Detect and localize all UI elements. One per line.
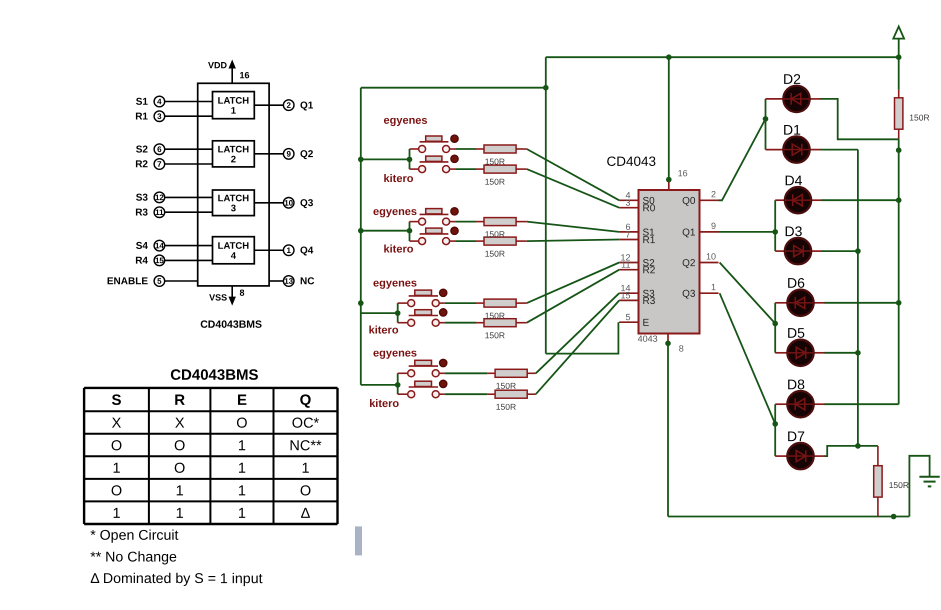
svg-text:4: 4 [157,97,162,106]
svg-text:2: 2 [711,189,716,199]
svg-text:1: 1 [711,282,716,292]
svg-text:X: X [175,416,185,432]
svg-text:D6: D6 [787,275,805,291]
svg-text:D2: D2 [783,71,801,87]
svg-text:D7: D7 [787,428,805,444]
svg-text:O: O [300,483,311,499]
svg-text:O: O [111,483,122,499]
svg-text:kitero: kitero [383,173,413,185]
svg-text:1: 1 [238,483,246,499]
svg-text:Δ Dominated by S = 1 input: Δ Dominated by S = 1 input [90,571,262,587]
svg-text:D4: D4 [784,172,802,188]
svg-text:O: O [174,438,185,454]
svg-text:S3: S3 [136,193,149,204]
svg-text:E: E [642,318,649,329]
svg-text:2: 2 [286,101,291,110]
svg-text:egyenes: egyenes [373,206,417,218]
svg-text:Q: Q [300,392,312,409]
svg-text:1: 1 [301,461,309,477]
svg-text:150R: 150R [909,113,929,123]
svg-text:S: S [111,392,121,409]
svg-text:7: 7 [625,229,630,239]
svg-text:D1: D1 [783,122,801,138]
svg-text:2: 2 [231,154,236,165]
svg-text:1: 1 [286,246,291,255]
svg-text:1: 1 [112,461,120,477]
svg-text:150R: 150R [485,177,505,187]
svg-text:R1: R1 [135,111,148,122]
svg-text:R3: R3 [642,296,655,307]
svg-text:16: 16 [678,168,688,178]
svg-text:Q3: Q3 [300,198,314,209]
svg-text:Q2: Q2 [682,258,696,269]
svg-text:NC**: NC** [289,438,322,454]
svg-text:CD4043: CD4043 [606,154,656,169]
svg-text:15: 15 [620,290,630,300]
svg-text:Q3: Q3 [682,289,696,300]
svg-text:Q1: Q1 [300,100,314,111]
svg-text:kitero: kitero [383,244,413,256]
svg-text:11: 11 [621,260,630,270]
svg-text:8: 8 [239,288,244,298]
svg-text:R2: R2 [642,265,655,276]
svg-text:150R: 150R [485,229,505,239]
svg-text:R4: R4 [135,256,148,267]
svg-text:15: 15 [155,256,164,265]
svg-text:Δ: Δ [301,506,311,522]
svg-text:S1: S1 [136,97,149,108]
svg-text:S2: S2 [136,144,149,155]
svg-text:150R: 150R [496,381,516,391]
svg-text:Q1: Q1 [682,227,696,238]
svg-text:E: E [237,392,247,409]
svg-text:egyenes: egyenes [373,278,417,290]
svg-text:CD4043BMS: CD4043BMS [200,319,262,331]
svg-text:150R: 150R [496,402,516,412]
svg-text:egyenes: egyenes [373,348,417,360]
svg-text:VDD: VDD [208,60,228,70]
svg-text:1: 1 [238,506,246,522]
svg-text:4043: 4043 [638,334,658,344]
svg-text:7: 7 [157,160,162,169]
svg-text:150R: 150R [889,480,909,490]
svg-text:OC*: OC* [292,416,320,432]
svg-text:1: 1 [112,506,120,522]
svg-text:150R: 150R [485,157,505,167]
svg-text:12: 12 [155,193,164,202]
svg-text:R: R [174,392,185,409]
svg-text:VSS: VSS [209,292,227,302]
svg-text:150R: 150R [485,330,505,340]
svg-text:egyenes: egyenes [383,115,427,127]
svg-text:10: 10 [284,199,293,208]
svg-text:kitero: kitero [369,325,399,337]
svg-text:1: 1 [238,438,246,454]
svg-text:R2: R2 [135,159,148,170]
svg-text:D8: D8 [787,376,805,392]
svg-text:NC: NC [300,276,314,287]
svg-text:3: 3 [231,203,236,214]
svg-text:X: X [112,416,122,432]
svg-text:9: 9 [711,221,716,231]
svg-text:3: 3 [625,198,630,208]
svg-text:9: 9 [286,150,291,159]
svg-text:D3: D3 [784,223,802,239]
svg-text:R3: R3 [135,207,148,218]
svg-text:1: 1 [231,106,237,117]
svg-text:D5: D5 [787,325,805,341]
svg-text:14: 14 [155,241,164,250]
svg-text:4: 4 [231,251,237,262]
svg-text:1: 1 [176,483,184,499]
svg-text:R0: R0 [642,203,655,214]
svg-text:S4: S4 [136,241,149,252]
svg-text:Q0: Q0 [682,196,696,207]
svg-text:Q4: Q4 [300,246,314,257]
svg-text:11: 11 [155,208,164,217]
svg-text:Q2: Q2 [300,149,314,160]
svg-text:ENABLE: ENABLE [107,276,148,287]
svg-text:1: 1 [176,506,184,522]
svg-text:13: 13 [284,277,293,286]
svg-text:kitero: kitero [369,398,399,410]
svg-text:150R: 150R [485,249,505,259]
svg-text:CD4043BMS: CD4043BMS [170,367,258,384]
svg-text:6: 6 [157,145,162,154]
svg-text:1: 1 [238,461,246,477]
svg-text:5: 5 [157,277,162,286]
svg-text:O: O [236,416,247,432]
svg-text:5: 5 [625,312,630,322]
svg-text:3: 3 [157,112,162,121]
svg-text:10: 10 [706,251,716,261]
svg-text:150R: 150R [485,311,505,321]
svg-text:** No Change: ** No Change [90,550,177,566]
svg-text:* Open Circuit: * Open Circuit [90,528,178,544]
svg-text:16: 16 [239,70,249,80]
svg-text:8: 8 [679,344,684,354]
svg-text:O: O [111,438,122,454]
svg-text:R1: R1 [642,235,655,246]
svg-text:O: O [174,461,185,477]
